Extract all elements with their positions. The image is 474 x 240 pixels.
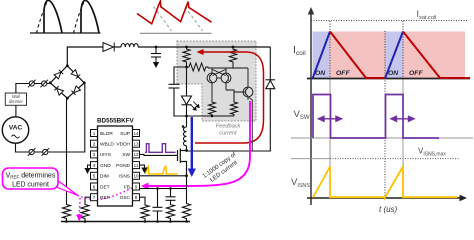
ISNS wire (140, 175, 187, 177)
svg-text:REF: REF (100, 195, 110, 201)
fuse symbol (28, 80, 36, 88)
ON shading 2 (385, 32, 403, 79)
magenta FB feedback path (141, 97, 252, 190)
gate wire (140, 154, 178, 155)
node dot rail-R1 (185, 46, 188, 49)
smoothed rectified sketch (137, 1, 212, 33)
svg-text:SW: SW (122, 152, 130, 158)
bridge diode D4 (71, 86, 80, 95)
blue LED current arrow (188, 117, 196, 177)
svg-text:BLDR: BLDR (100, 131, 113, 137)
svg-text:Feedback: Feedback (216, 124, 242, 130)
axis arrowhead (308, 7, 314, 15)
magenta callout bubble (3, 168, 79, 196)
right pin external wires (140, 165, 191, 221)
svg-text:DIM: DIM (100, 174, 109, 180)
red ramp 1 (330, 32, 385, 79)
transistor Q2 (221, 68, 231, 90)
rail junction dots (65, 220, 188, 223)
svg-text:Isat.coil: Isat.coil (417, 9, 437, 21)
Visns baseline arrow (307, 197, 463, 199)
resistor Rbld (63, 204, 71, 222)
svg-text:11: 11 (134, 163, 139, 168)
Visns max line (291, 158, 330, 160)
bridge diode D1 (54, 70, 63, 79)
red loop arrowhead (197, 49, 204, 55)
node B dot (185, 115, 188, 118)
Vsw gray low line (291, 137, 473, 139)
fuse symbol (42, 148, 50, 156)
sense resistor Risns (186, 176, 188, 203)
LED D5 (182, 67, 192, 116)
resistor R1 (183, 47, 190, 67)
Icoil axis (310, 9, 312, 205)
PGND arrow (141, 168, 147, 174)
svg-text:ON: ON (388, 70, 399, 77)
svg-text:2: 2 (93, 142, 96, 147)
svg-text:3: 3 (93, 152, 96, 157)
magenta dotted path down (78, 198, 81, 216)
bridge vertex dots (49, 64, 86, 99)
svg-text:OSC: OSC (120, 195, 131, 201)
Q3 base wire (234, 92, 246, 95)
yellow isns sketch (146, 166, 178, 175)
svg-text:WBLD: WBLD (100, 142, 114, 148)
fuse symbol (28, 148, 36, 156)
svg-text:VISNS,max: VISNS,max (418, 147, 446, 158)
inductor dot (182, 125, 185, 128)
ON shading 1 (313, 32, 331, 79)
Isat dotted line (311, 20, 468, 22)
wire VAC return (16, 84, 85, 153)
VAC source (2, 117, 28, 143)
GND arrow (84, 168, 90, 174)
svg-text:13: 13 (133, 142, 139, 147)
resistor R4 (209, 101, 216, 116)
svg-text:ON: ON (315, 70, 326, 77)
cap C3 plus resistor column (166, 189, 176, 205)
svg-text:VAC: VAC (9, 125, 23, 132)
node dot rail-R3 (232, 46, 235, 49)
series diode (103, 43, 114, 52)
red OFF current loop (195, 52, 264, 143)
dotted vline t1 (329, 21, 331, 198)
svg-text:6: 6 (93, 184, 96, 189)
svg-text:DET: DET (100, 184, 110, 190)
resistor Rosc (141, 204, 149, 222)
mirror cross wires (213, 70, 226, 76)
IC pin boxes right (133, 130, 140, 201)
freewheel diode D6 (187, 47, 276, 151)
REF wire (85, 197, 91, 203)
bottom rail (61, 221, 190, 223)
bridge rectifier (50, 66, 84, 98)
node dot ISNS (185, 174, 188, 177)
transistor Q1 (207, 68, 217, 101)
gray feedback block (177, 41, 256, 121)
mirror bus wire (208, 67, 248, 69)
pulse width arrow 2 (391, 116, 414, 121)
svg-text:9: 9 (135, 184, 138, 189)
svg-text:SUP: SUP (120, 131, 130, 137)
magenta down arrowhead (76, 215, 83, 222)
Vsw waveform (313, 95, 439, 139)
node dot sense bus (211, 115, 214, 118)
Visns sawtooth (313, 167, 457, 198)
svg-text:ISNS: ISNS (119, 174, 130, 180)
feedback current label (216, 124, 242, 137)
node dot C3 (169, 187, 172, 190)
wire dimmer to bridge (16, 84, 50, 117)
pulse width arrow 1 (319, 116, 342, 121)
cap C2 column (153, 189, 163, 222)
svg-text:FB: FB (124, 184, 130, 190)
base link wire (217, 77, 221, 79)
svg-text:PGND: PGND (116, 163, 130, 169)
resistor R5 (231, 95, 238, 116)
1:1000 copy label (202, 152, 242, 186)
svg-text:BD555BKFV: BD555BKFV (97, 118, 135, 125)
node A dot (185, 66, 188, 69)
IC pin boxes left (91, 130, 98, 201)
input cap C1 (151, 47, 161, 62)
inductor L2 (183, 116, 186, 151)
svg-text:GND: GND (100, 163, 111, 169)
svg-text:12: 12 (133, 152, 139, 157)
pin labels (100, 131, 114, 201)
transistor Q3 (243, 68, 253, 100)
dotted vline t2 (384, 31, 386, 198)
svg-text:8: 8 (135, 195, 138, 200)
ground arrow C1 (153, 62, 159, 68)
svg-text:dimmer: dimmer (9, 99, 24, 104)
GND pin wire (88, 165, 91, 168)
resistor R2 (187, 63, 209, 71)
left pin column wires (63, 98, 91, 221)
fuse symbol (40, 80, 48, 88)
svg-text:VSW: VSW (294, 109, 310, 121)
MOSFET Q4 (178, 149, 187, 177)
svg-text:ISYS: ISYS (100, 152, 111, 158)
PGND wire (140, 165, 145, 167)
pin numbers (93, 131, 139, 200)
wall dimmer box (5, 93, 26, 105)
svg-text:5: 5 (93, 174, 96, 179)
node dot SW (185, 149, 188, 152)
resistor R3 (229, 47, 236, 68)
svg-text:Icoil: Icoil (293, 44, 306, 57)
svg-text:10: 10 (133, 174, 139, 179)
svg-text:OFF: OFF (409, 70, 423, 77)
LED cap branch (169, 67, 187, 116)
node dot C2 (156, 187, 159, 190)
Icoil baseline (307, 78, 470, 80)
svg-text:VISNS: VISNS (291, 177, 310, 189)
gray vline t1 low (329, 79, 331, 199)
svg-text:t (us): t (us) (379, 205, 398, 214)
ON OFF labels (315, 70, 423, 77)
purple gate sketch (145, 144, 176, 153)
dotted vline t3 (402, 21, 404, 198)
OFF shading 2 (403, 32, 465, 79)
red ramp 2 (403, 32, 470, 79)
FB comp wire (140, 188, 187, 190)
bridge diode D2 (71, 70, 80, 79)
resistor Rref (81, 204, 89, 222)
svg-text:4: 4 (93, 163, 96, 168)
bridge minus column (66, 98, 69, 203)
OFF shading 1 (330, 32, 385, 79)
OSC wire (140, 197, 146, 204)
sense bus wire (187, 115, 235, 117)
node dot rail-C1 (155, 46, 158, 49)
magenta dotted path to FB (70, 186, 139, 200)
IC body U1 (98, 126, 133, 206)
LED light arrows (190, 102, 199, 111)
dimmer chopped sine sketch (30, 0, 101, 33)
Q2-R5 wire (226, 90, 234, 95)
blue ramp 2 (385, 32, 403, 79)
bridge diode D3 (54, 86, 63, 95)
blue ramp 1 (313, 32, 331, 79)
svg-text:14: 14 (133, 131, 139, 136)
svg-text:1: 1 (93, 131, 96, 136)
svg-text:7: 7 (93, 195, 96, 200)
svg-text:current: current (219, 131, 237, 137)
gray vline t3 low (402, 79, 404, 199)
svg-text:OFF: OFF (336, 70, 350, 77)
series inductor (121, 44, 138, 47)
top rail wire (67, 47, 270, 67)
svg-text:VDDH: VDDH (116, 142, 130, 148)
svg-text:LED current: LED current (12, 181, 49, 188)
